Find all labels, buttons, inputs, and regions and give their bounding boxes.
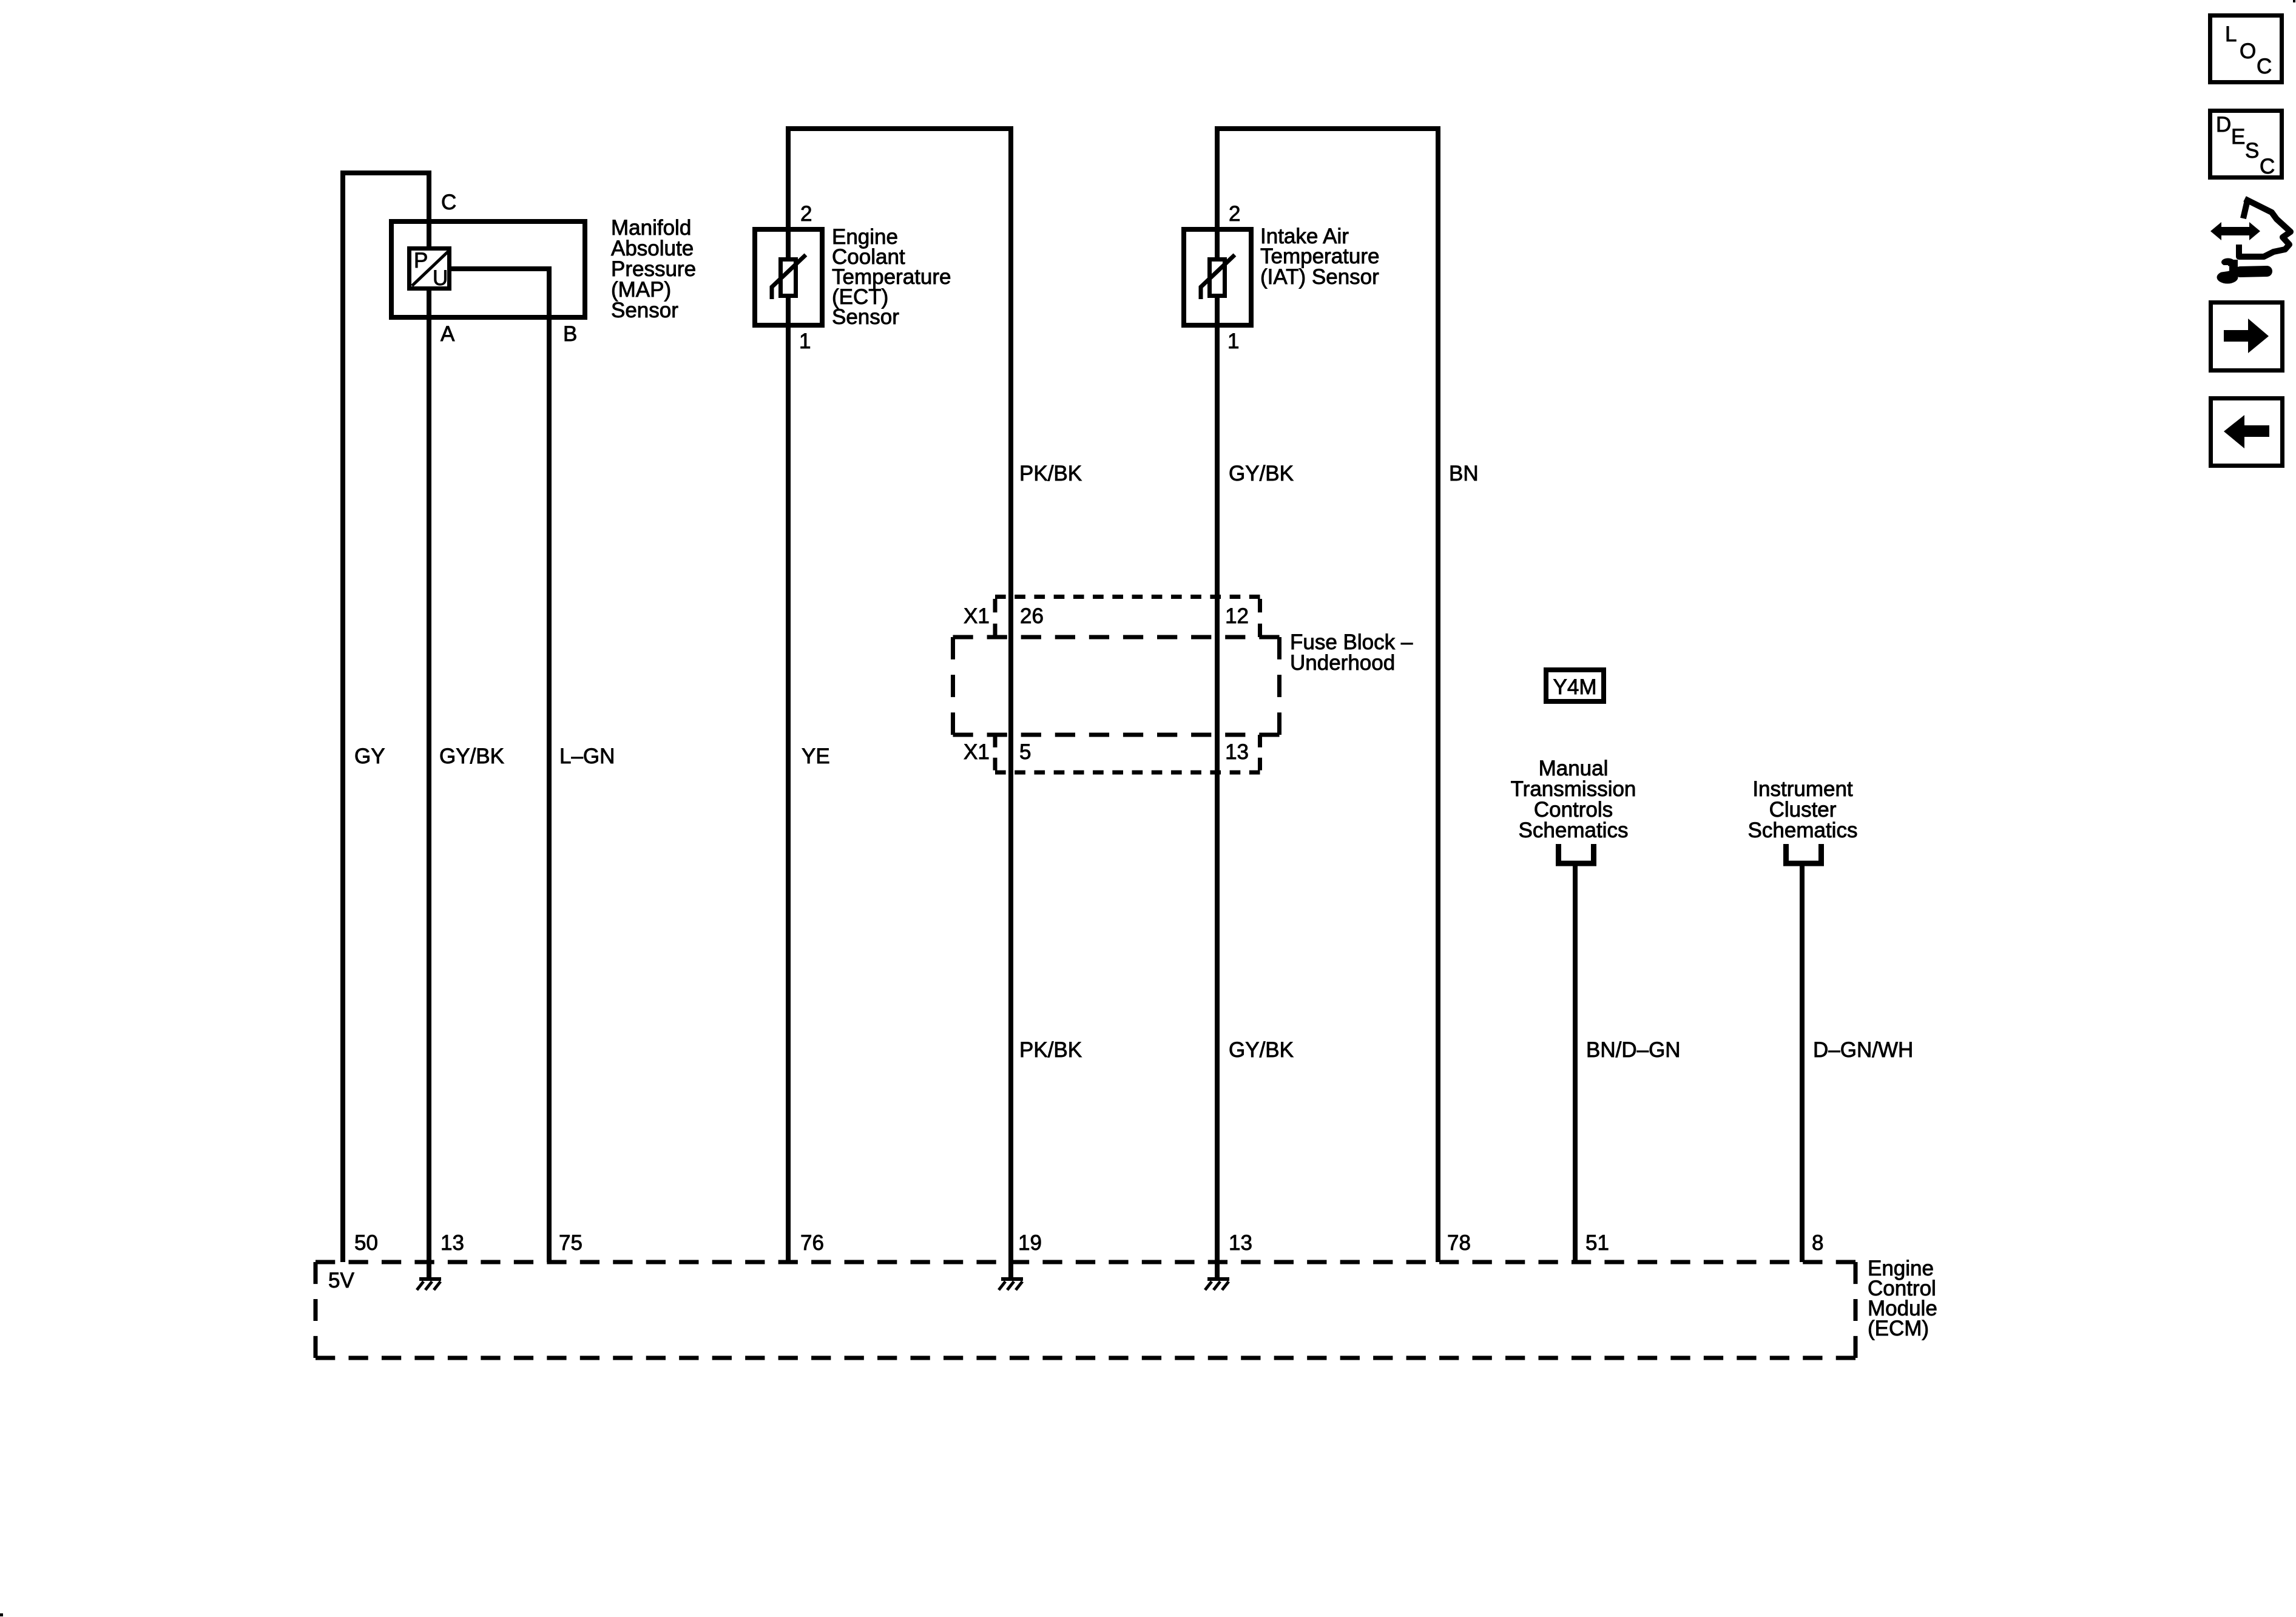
IAT sensor box — [1184, 229, 1251, 325]
ECT sensor box — [755, 229, 822, 325]
svg-text:C: C — [441, 191, 456, 214]
MAP sensor box — [391, 221, 585, 317]
svg-text:76: 76 — [800, 1231, 824, 1255]
manual transmission label — [1511, 757, 1636, 842]
ground at pin 19 — [999, 1277, 1023, 1290]
svg-text:1: 1 — [1227, 329, 1239, 353]
svg-text:YE: YE — [802, 744, 830, 768]
svg-text:BN/D–GN: BN/D–GN — [1586, 1038, 1681, 1062]
fuse block X1 connector bottom dotted box — [995, 735, 1260, 772]
svg-text:X1: X1 — [964, 604, 990, 628]
wire BN: to ECM pin 78 — [1436, 126, 1440, 1262]
svg-text:19: 19 — [1018, 1231, 1042, 1255]
wire BN/D-GN: to ECM pin 51 — [1573, 863, 1578, 1262]
svg-text:GY/BK: GY/BK — [1229, 462, 1294, 485]
svg-text:75: 75 — [559, 1231, 582, 1255]
svg-text:51: 51 — [1585, 1231, 1609, 1255]
wire C/A: MAP sensor signal wire to ECM pin 13 — [427, 170, 431, 1278]
svg-text:50: 50 — [354, 1231, 378, 1255]
svg-text:13: 13 — [441, 1231, 464, 1255]
svg-text:1: 1 — [799, 329, 811, 353]
svg-text:D: D — [2216, 113, 2231, 137]
fuse block dashed box — [953, 637, 1280, 735]
svg-text:GY/BK: GY/BK — [439, 744, 504, 768]
wire ECT top horizontal — [788, 126, 1011, 131]
svg-text:E: E — [2231, 125, 2245, 149]
svg-text:13: 13 — [1225, 740, 1249, 764]
connector Y4M box — [1546, 670, 1604, 701]
ECM dashed box — [316, 1262, 1855, 1358]
svg-text:X1: X1 — [964, 740, 990, 764]
svg-text:GY/BK: GY/BK — [1229, 1038, 1294, 1062]
svg-text:L: L — [2225, 22, 2237, 46]
ground at pin 13 — [417, 1277, 441, 1290]
svg-text:5V: 5V — [328, 1269, 354, 1292]
svg-text:Sensor: Sensor — [832, 305, 899, 329]
wire IAT top horizontal — [1217, 126, 1438, 131]
forward arrow nav box — [2211, 303, 2283, 371]
svg-text:2: 2 — [800, 202, 812, 226]
svg-text:Y4M: Y4M — [1553, 675, 1597, 699]
svg-text:B: B — [563, 322, 577, 346]
svg-text:5: 5 — [1019, 740, 1031, 764]
ground at pin 13b — [1205, 1277, 1229, 1290]
ECT thermistor symbol — [772, 255, 806, 299]
svg-text:PK/BK: PK/BK — [1019, 462, 1082, 485]
svg-text:78: 78 — [1447, 1231, 1471, 1255]
svg-text:P: P — [414, 249, 428, 272]
svg-text:26: 26 — [1020, 604, 1044, 628]
svg-text:U: U — [433, 266, 448, 290]
svg-text:C: C — [2260, 155, 2275, 178]
svg-text:BN: BN — [1449, 462, 1479, 485]
svg-text:GY: GY — [354, 744, 385, 768]
wire B: L-GN wire from P/U symbol to ECM pin 75 — [450, 269, 549, 1262]
svg-text:Schematics: Schematics — [1748, 819, 1858, 842]
svg-text:Schematics: Schematics — [1519, 819, 1629, 842]
back arrow nav box — [2211, 399, 2283, 466]
adjust icon: double arrow, hand, wrench — [2210, 200, 2291, 284]
LOC nav box — [2210, 16, 2282, 83]
svg-text:Sensor: Sensor — [611, 299, 678, 322]
svg-text:D–GN/WH: D–GN/WH — [1813, 1038, 1913, 1062]
svg-text:2: 2 — [1229, 202, 1240, 226]
svg-text:12: 12 — [1225, 604, 1249, 628]
off-page bracket instrument cluster — [1786, 844, 1822, 863]
svg-text:A: A — [441, 322, 455, 346]
svg-text:(ECM): (ECM) — [1868, 1317, 1929, 1340]
corner mark bottom left — [0, 1613, 3, 1616]
wire GY: MAP loop left vertical + top horizontal, ECM pin 50 — [343, 173, 429, 1262]
wire GY/BK: IAT sensor wire to ECM pin 13 — [1215, 126, 1220, 1278]
off-page bracket manual transmission — [1559, 844, 1594, 863]
wire YE: ECT sensor pin2/pin1 wire to ECM pin 76 — [786, 126, 791, 1262]
svg-text:PK/BK: PK/BK — [1019, 1038, 1082, 1062]
wire PK/BK: to ECM pin 19 through fuse block — [1008, 126, 1013, 1278]
DESC nav box — [2210, 111, 2282, 179]
svg-text:8: 8 — [1812, 1231, 1823, 1255]
instrument cluster label — [1748, 777, 1858, 842]
IAT thermistor symbol — [1201, 255, 1235, 299]
svg-text:C: C — [2257, 55, 2272, 78]
svg-text:L–GN: L–GN — [559, 744, 615, 768]
svg-text:Underhood: Underhood — [1290, 651, 1395, 675]
svg-text:S: S — [2245, 139, 2259, 163]
fuse block X1 connector top dotted box — [995, 597, 1260, 638]
svg-text:13: 13 — [1229, 1231, 1252, 1255]
svg-text:(IAT) Sensor: (IAT) Sensor — [1260, 265, 1379, 289]
corner mark top right — [2293, 0, 2295, 2]
MAP P/U transducer symbol — [410, 249, 450, 291]
wire D-GN/WH: to ECM pin 8 — [1800, 863, 1805, 1262]
svg-text:O: O — [2240, 39, 2256, 63]
